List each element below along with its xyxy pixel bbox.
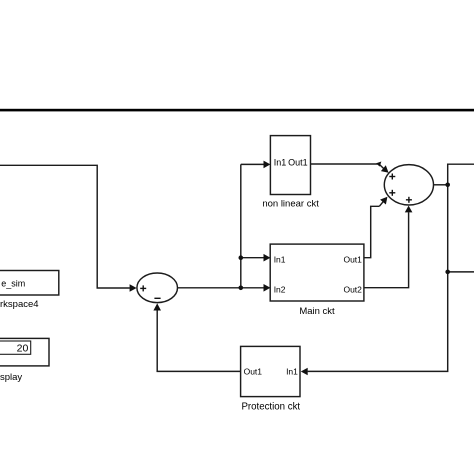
- svg-text:non linear ckt: non linear ckt: [262, 198, 319, 209]
- svg-text:Out1: Out1: [343, 254, 362, 264]
- svg-text:20: 20: [17, 343, 29, 355]
- svg-text:Out1: Out1: [288, 158, 308, 168]
- svg-text:e_sim: e_sim: [1, 278, 25, 288]
- svg-text:Protection ckt: Protection ckt: [241, 402, 300, 413]
- svg-text:In2: In2: [274, 284, 286, 294]
- svg-text:In1: In1: [274, 254, 286, 264]
- svg-text:In1: In1: [274, 158, 287, 168]
- svg-text:Out1: Out1: [244, 367, 263, 377]
- svg-text:splay: splay: [0, 372, 22, 383]
- svg-text:Out2: Out2: [343, 284, 362, 294]
- svg-text:rkspace4: rkspace4: [0, 299, 39, 310]
- svg-text:Main ckt: Main ckt: [299, 306, 335, 317]
- svg-text:In1: In1: [286, 367, 298, 377]
